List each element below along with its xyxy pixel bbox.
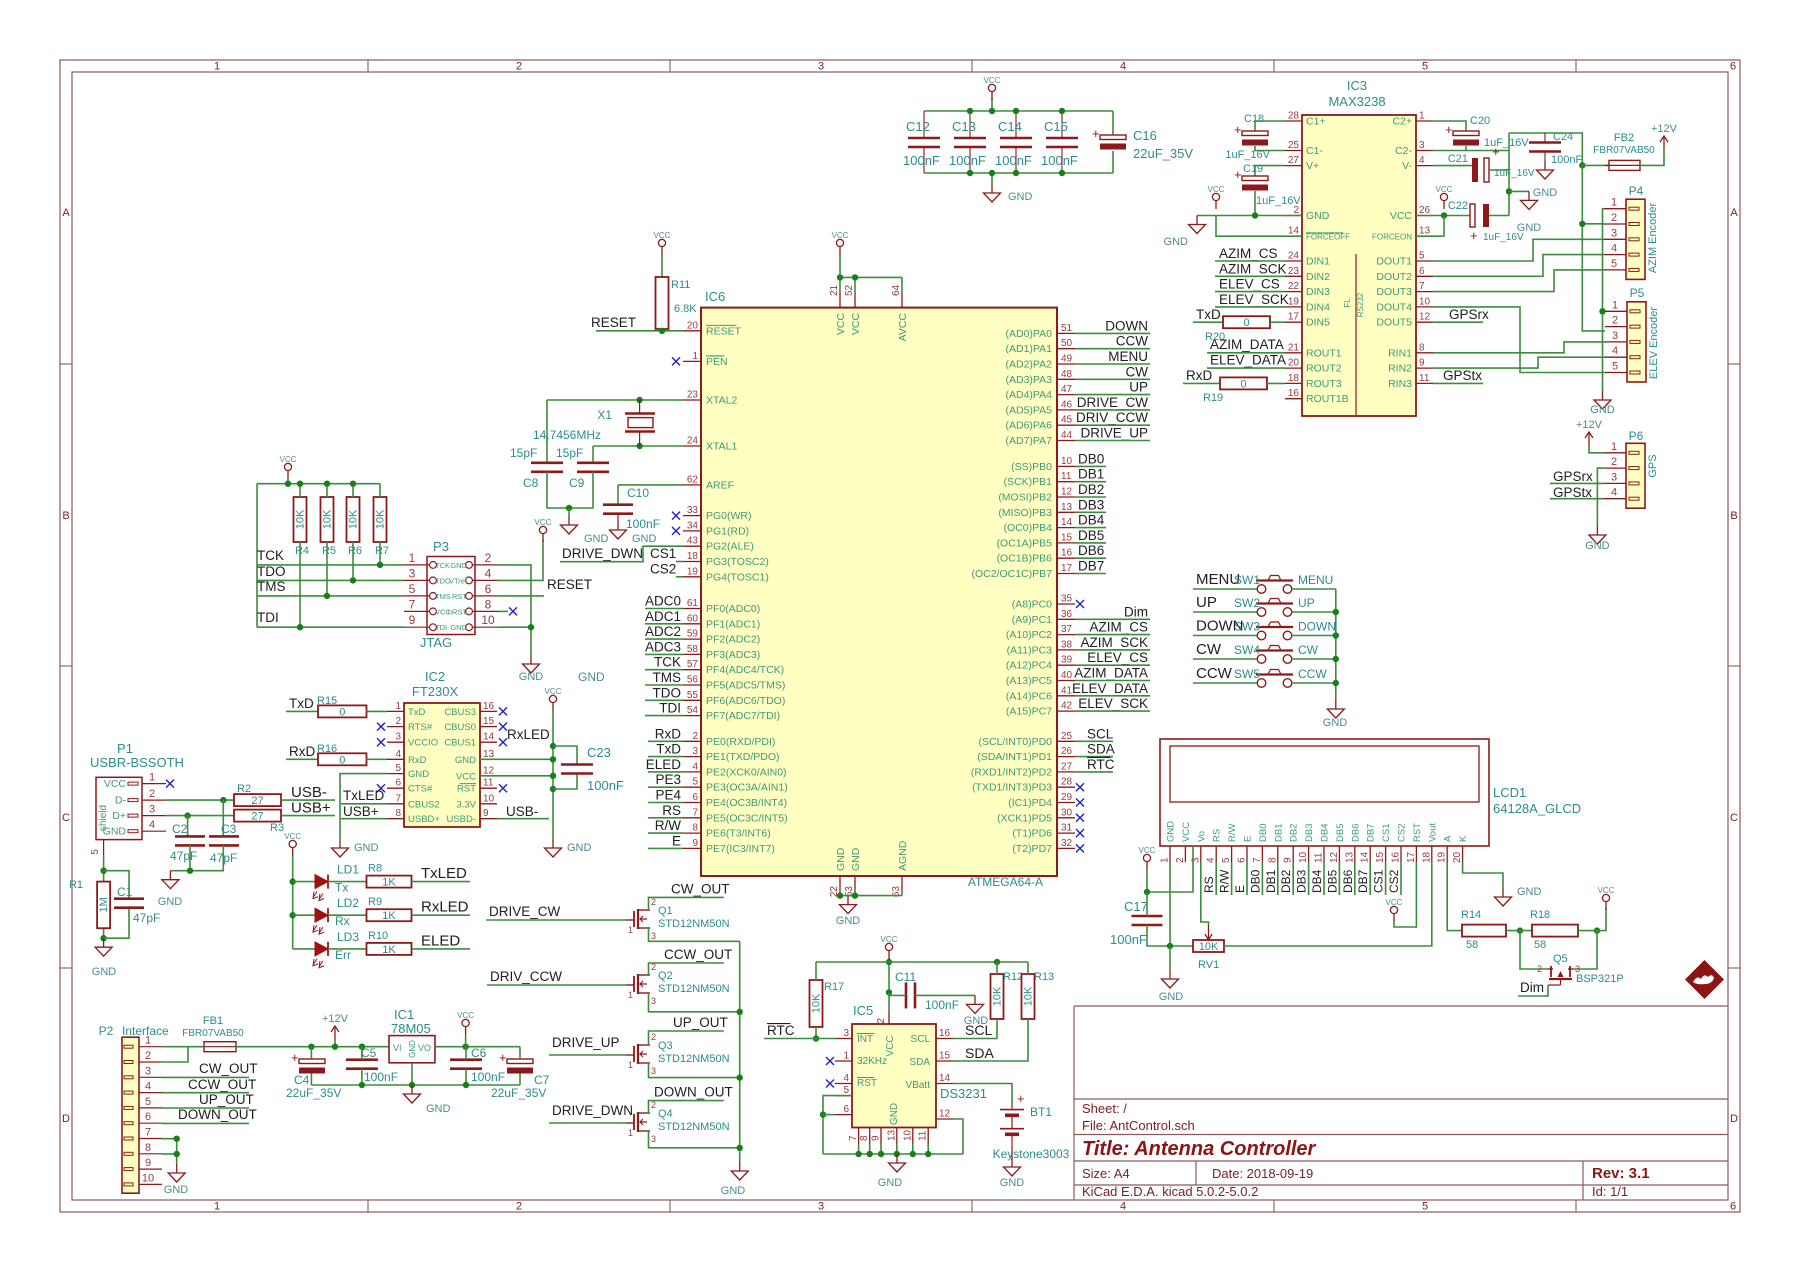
- svg-text:ROUT2: ROUT2: [1306, 363, 1342, 375]
- svg-text:TDI: TDI: [435, 623, 447, 632]
- wire c5 top: [361, 1047, 363, 1060]
- ferrite bead FB1: [182, 1015, 244, 1052]
- svg-text:DRIVE_UP: DRIVE_UP: [1080, 426, 1148, 441]
- node TMS l: [645, 670, 683, 685]
- junction tck j: [377, 562, 383, 568]
- svg-text:3: 3: [1575, 964, 1580, 974]
- svg-text:LD3: LD3: [337, 930, 359, 944]
- svg-text:GND: GND: [1166, 821, 1177, 842]
- svg-text:39: 39: [1061, 655, 1073, 666]
- svg-text:PE1(TXD/PDO): PE1(TXD/PDO): [706, 751, 780, 763]
- svg-text:DRIV_CCW: DRIV_CCW: [490, 969, 562, 984]
- wire sw out SW3: [1292, 635, 1336, 637]
- svg-text:STD12NM50N: STD12NM50N: [658, 983, 730, 995]
- svg-text:GND: GND: [836, 915, 861, 927]
- wire C19- to gnd rail: [1254, 191, 1256, 216]
- power VCC leds: [284, 832, 301, 856]
- connector P4: [1604, 184, 1659, 279]
- svg-text:STD12NM50N: STD12NM50N: [658, 1053, 730, 1065]
- svg-text:DB0: DB0: [1248, 869, 1262, 893]
- svg-text:78M05: 78M05: [391, 1021, 431, 1036]
- svg-text:17: 17: [1288, 312, 1300, 323]
- svg-text:6.8K: 6.8K: [674, 303, 697, 315]
- junction cap top: [1013, 108, 1019, 114]
- svg-text:KiCad E.D.A. kicad 5.0.2-5.0.: KiCad E.D.A. kicad 5.0.2-5.0.2: [1082, 1184, 1258, 1199]
- wire c2 drop: [187, 816, 189, 837]
- svg-text:40: 40: [1061, 670, 1073, 681]
- svg-text:GND: GND: [1585, 540, 1610, 552]
- wire C22 right to node: [1489, 215, 1509, 217]
- node TDI: [257, 610, 279, 625]
- svg-text:100nF: 100nF: [364, 1070, 398, 1084]
- svg-text:C22: C22: [1448, 200, 1468, 212]
- svg-text:SCL: SCL: [911, 1034, 931, 1045]
- svg-text:C11: C11: [895, 970, 916, 984]
- svg-text:R19: R19: [1203, 392, 1223, 404]
- svg-text:ELED: ELED: [421, 932, 460, 949]
- node CCW: [1075, 334, 1150, 349]
- svg-text:RxD: RxD: [408, 755, 427, 766]
- svg-text:6: 6: [1730, 61, 1736, 73]
- wire p2 gnd8: [162, 1153, 177, 1155]
- svg-text:DB2: DB2: [1289, 824, 1300, 842]
- svg-text:DIN4: DIN4: [1306, 301, 1330, 313]
- svg-text:A: A: [62, 207, 70, 219]
- svg-text:6: 6: [395, 778, 401, 789]
- svg-text:3: 3: [149, 804, 155, 816]
- wire pin12 down: [953, 1119, 963, 1154]
- svg-text:9: 9: [1419, 358, 1425, 369]
- svg-text:10: 10: [481, 613, 495, 627]
- ground regulator: [404, 1085, 451, 1115]
- svg-text:VCC: VCC: [1181, 822, 1192, 842]
- svg-text:STD12NM50N: STD12NM50N: [658, 918, 730, 930]
- wire p3 pin10 gnd: [498, 627, 531, 655]
- capacitor C22: [1448, 200, 1524, 243]
- node USB- ic2: [497, 804, 549, 819]
- wire pin drop: [912, 1144, 914, 1154]
- svg-text:AZIM_SCK: AZIM_SCK: [1080, 635, 1148, 650]
- node RTC pd2: [1075, 757, 1115, 772]
- IC6 bottom pins: [829, 840, 909, 897]
- svg-text:MENU: MENU: [1298, 573, 1333, 587]
- svg-text:9: 9: [692, 838, 698, 849]
- svg-text:DB2: DB2: [1078, 482, 1104, 497]
- wire c9 drop: [592, 446, 594, 463]
- svg-text:(OC2/OC1C)PB7: (OC2/OC1C)PB7: [971, 568, 1052, 580]
- svg-text:13: 13: [483, 749, 495, 760]
- svg-text:Q4: Q4: [658, 1108, 673, 1120]
- wire lcd vcc: [1147, 862, 1193, 892]
- svg-text:DB6: DB6: [1350, 824, 1361, 842]
- wire tms row: [257, 595, 404, 597]
- junction c17 top j: [1144, 889, 1150, 895]
- svg-text:GND: GND: [850, 847, 862, 871]
- capacitor C13: [949, 111, 986, 173]
- svg-text:GPSrx: GPSrx: [1553, 469, 1593, 484]
- svg-text:100nF: 100nF: [949, 153, 986, 168]
- svg-text:6: 6: [692, 792, 698, 803]
- svg-text:2: 2: [1611, 456, 1617, 468]
- svg-text:1: 1: [628, 925, 633, 935]
- svg-text:+12V: +12V: [322, 1013, 349, 1025]
- svg-text:42: 42: [1061, 701, 1073, 712]
- svg-text:FORCEOFF: FORCEOFF: [1306, 233, 1350, 242]
- connector P3: [404, 539, 498, 650]
- regulator IC1: [389, 1007, 435, 1063]
- node USB- p1: [281, 784, 335, 801]
- junction p2 j8: [174, 1151, 180, 1157]
- op-amp U IC6 body: [701, 289, 1057, 889]
- wire vbatt: [953, 1084, 1012, 1105]
- svg-text:UP: UP: [1196, 594, 1217, 611]
- wire vcc stem jtag: [287, 477, 289, 484]
- svg-text:DB5: DB5: [1078, 528, 1104, 543]
- svg-text:4: 4: [843, 1073, 849, 1084]
- node ELEV_CS pc: [1075, 650, 1150, 665]
- svg-text:PF4(ADC4/TCK): PF4(ADC4/TCK): [706, 664, 784, 676]
- svg-text:R4: R4: [295, 545, 309, 557]
- svg-text:(A14)PC6: (A14)PC6: [1006, 690, 1052, 702]
- svg-text:VCC: VCC: [1390, 210, 1413, 222]
- wire xtal1 wire: [593, 445, 683, 447]
- node DRIVE_DWN q: [549, 1103, 633, 1123]
- node ELEV_DATA pc: [1072, 681, 1150, 696]
- no-connect ic2 p11: [499, 784, 507, 792]
- junction c23 j4: [550, 773, 556, 779]
- transistor Q1: [626, 897, 730, 941]
- svg-text:P3: P3: [433, 539, 449, 554]
- wire r4 down: [299, 542, 301, 627]
- svg-text:(A15)PC7: (A15)PC7: [1006, 706, 1052, 718]
- svg-text:GND: GND: [1517, 886, 1542, 898]
- IC6 top pins: [829, 284, 909, 341]
- resistor R20: [1205, 316, 1270, 343]
- svg-text:4: 4: [1206, 857, 1217, 863]
- svg-text:DIN3: DIN3: [1306, 286, 1330, 298]
- svg-text:DOUT4: DOUT4: [1376, 301, 1412, 313]
- no-connect p1 vcc: [166, 780, 174, 788]
- svg-text:CS1: CS1: [650, 546, 676, 561]
- node DB5: [1075, 528, 1106, 543]
- junction gnd tap: [1506, 188, 1512, 194]
- svg-text:(T2)PD7: (T2)PD7: [1012, 843, 1052, 855]
- wire sw out SW2: [1292, 611, 1336, 613]
- svg-text:+: +: [499, 1050, 507, 1065]
- capacitor C2: [170, 822, 205, 863]
- wire r6 down: [352, 542, 354, 580]
- no-connect ic2 p2: [377, 723, 385, 731]
- svg-text:+: +: [1470, 228, 1478, 243]
- svg-text:GND: GND: [519, 671, 544, 683]
- junction dm j: [220, 797, 226, 803]
- svg-text:29: 29: [1061, 792, 1073, 803]
- svg-text:PG4(TOSC1): PG4(TOSC1): [706, 571, 769, 583]
- svg-text:GND: GND: [1159, 991, 1184, 1003]
- junction c11 j: [886, 989, 892, 995]
- junction cap bottom: [1059, 170, 1065, 176]
- node TDO: [257, 564, 286, 579]
- node SDA: [1075, 742, 1115, 757]
- svg-text:BT1: BT1: [1030, 1105, 1052, 1119]
- wire c23 top: [553, 746, 577, 765]
- wire pullup rail: [816, 961, 1028, 963]
- svg-text:XTAL1: XTAL1: [706, 441, 737, 453]
- wire aref wire: [618, 484, 683, 486]
- wire pin26 node: [1416, 215, 1470, 217]
- svg-text:C1+: C1+: [1306, 116, 1326, 128]
- wire r top: [352, 484, 354, 497]
- svg-text:17: 17: [1061, 563, 1073, 574]
- svg-text:Err: Err: [335, 948, 351, 962]
- svg-text:13: 13: [1344, 851, 1355, 863]
- wire led in LD1: [293, 881, 315, 883]
- svg-text:24: 24: [687, 436, 699, 447]
- transistor Q2: [626, 962, 730, 1006]
- svg-text:R14: R14: [1461, 909, 1481, 921]
- svg-text:52: 52: [844, 284, 855, 296]
- ground cap bank: [984, 184, 1033, 203]
- svg-text:VCC: VCC: [1598, 886, 1615, 895]
- no-connect ic2 p16: [499, 707, 507, 715]
- ground C10: [610, 514, 657, 545]
- svg-text:RxD: RxD: [1186, 368, 1212, 383]
- junction c23 j3: [550, 756, 556, 762]
- svg-text:1: 1: [214, 1201, 220, 1213]
- svg-text:RST: RST: [1412, 823, 1423, 842]
- node TCK: [257, 548, 284, 563]
- switch SW1: [1234, 573, 1293, 593]
- svg-text:R5: R5: [322, 545, 336, 557]
- junction gnd j2: [852, 892, 858, 898]
- ground BT1: [1000, 1158, 1025, 1189]
- svg-text:5: 5: [90, 849, 101, 855]
- svg-text:GPSrx: GPSrx: [1449, 307, 1489, 322]
- resistor R13: [1022, 971, 1055, 1019]
- node DRIV_CCW: [1075, 410, 1150, 425]
- junction cap bottom: [1013, 170, 1019, 176]
- junction FB2 junction: [1579, 162, 1585, 168]
- svg-text:12: 12: [1061, 487, 1073, 498]
- node TMS: [257, 579, 286, 594]
- svg-text:R10: R10: [368, 930, 388, 942]
- node DOWN sw r: [1298, 620, 1336, 634]
- svg-text:PF5(ADC5/TMS): PF5(ADC5/TMS): [706, 680, 785, 692]
- svg-text:MAX3238: MAX3238: [1328, 94, 1385, 109]
- svg-text:5: 5: [692, 777, 698, 788]
- svg-text:PG1(RD): PG1(RD): [706, 525, 749, 537]
- junction rail j2: [409, 1082, 415, 1088]
- svg-text:10K: 10K: [811, 993, 823, 1013]
- node E pe: [648, 833, 683, 848]
- IC6 right pins: [971, 323, 1075, 855]
- connector P1: [90, 741, 184, 855]
- svg-text:SW4: SW4: [1234, 643, 1260, 657]
- junction rail j: [285, 481, 291, 487]
- svg-text:R9: R9: [368, 896, 382, 908]
- svg-text:GND: GND: [584, 533, 609, 545]
- svg-text:5: 5: [1422, 61, 1428, 73]
- svg-text:R13: R13: [1034, 971, 1054, 983]
- svg-text:3: 3: [651, 1066, 656, 1076]
- svg-text:RIN2: RIN2: [1388, 363, 1412, 375]
- svg-text:47pF: 47pF: [170, 849, 197, 863]
- connector P6: [1604, 429, 1659, 508]
- svg-text:DB6: DB6: [1078, 543, 1104, 558]
- capacitor C23: [561, 745, 624, 793]
- resistor R11: [656, 277, 698, 329]
- svg-text:VO: VO: [418, 1043, 431, 1053]
- svg-text:Date: 2018-09-19: Date: 2018-09-19: [1212, 1166, 1313, 1181]
- wire p2.2 step: [162, 1047, 188, 1062]
- svg-text:10: 10: [1298, 851, 1309, 863]
- wire pin3 to rv1: [1201, 862, 1209, 925]
- wire rv1 out: [1224, 862, 1432, 946]
- svg-text:PG0(WR): PG0(WR): [706, 510, 752, 522]
- svg-text:DOWN: DOWN: [1105, 318, 1148, 333]
- node RxD pe: [648, 726, 683, 741]
- svg-text:3.3V: 3.3V: [456, 799, 476, 810]
- potentiometer RV1: [1193, 925, 1224, 971]
- wire C21 to node: [1489, 169, 1509, 171]
- svg-text:2: 2: [1611, 212, 1617, 224]
- svg-text:33: 33: [687, 505, 699, 516]
- svg-text:+: +: [291, 1050, 299, 1065]
- power GND C24: [1533, 161, 1558, 199]
- svg-text:1: 1: [692, 351, 698, 362]
- junction sw j: [1333, 680, 1339, 686]
- svg-text:Vo: Vo: [1196, 831, 1207, 842]
- junction cap top: [989, 108, 995, 114]
- svg-text:DRIVE_DWN: DRIVE_DWN: [562, 546, 643, 561]
- wire src Q2: [649, 993, 740, 1012]
- junction q j4: [737, 1145, 743, 1151]
- svg-text:41: 41: [1061, 685, 1073, 696]
- junction c5 j: [359, 1044, 365, 1050]
- svg-text:2: 2: [651, 1032, 656, 1042]
- wire ic5 pin6: [823, 1114, 835, 1116]
- wire sw out SW5: [1292, 682, 1336, 684]
- svg-text:PF7(ADC7/TDI): PF7(ADC7/TDI): [706, 710, 780, 722]
- resistor R19: [1203, 377, 1267, 404]
- wire c8 drop: [546, 400, 548, 463]
- svg-text:22uF_35V: 22uF_35V: [286, 1086, 341, 1100]
- svg-text:DB3: DB3: [1078, 497, 1104, 512]
- svg-text:25: 25: [1061, 731, 1073, 742]
- svg-text:RxD: RxD: [289, 744, 315, 759]
- power VCC ic3 left: [1208, 185, 1225, 209]
- svg-text:CBUS2: CBUS2: [408, 799, 440, 810]
- svg-text:P1: P1: [117, 741, 133, 756]
- svg-text:32KHz: 32KHz: [857, 1056, 887, 1067]
- wire pin13 rail: [480, 758, 553, 760]
- node DB6 lcd: [1341, 862, 1355, 895]
- wire vcc to R11: [661, 253, 663, 277]
- svg-text:GND: GND: [158, 896, 183, 908]
- node TxD pe: [648, 742, 683, 757]
- node RxD ic2: [286, 744, 318, 759]
- svg-text:C1-: C1-: [1306, 145, 1323, 157]
- node USB+ ic2: [341, 804, 387, 819]
- junction gnd j1: [837, 892, 843, 898]
- svg-text:R16: R16: [317, 743, 337, 755]
- svg-text:(A13)PC5: (A13)PC5: [1006, 675, 1052, 687]
- crystal X1: [533, 400, 655, 446]
- svg-text:DB5: DB5: [1335, 824, 1346, 842]
- svg-text:28: 28: [1288, 111, 1300, 122]
- svg-text:55: 55: [687, 690, 699, 701]
- svg-text:CS2: CS2: [1387, 869, 1401, 893]
- wire led in LD2: [293, 914, 315, 916]
- svg-text:PF0(ADC0): PF0(ADC0): [706, 603, 760, 615]
- svg-text:3: 3: [651, 1134, 656, 1144]
- svg-text:14: 14: [1288, 226, 1300, 237]
- node ELED pe: [646, 757, 683, 772]
- svg-text:2: 2: [145, 1050, 151, 1062]
- no-connect ic2 p14: [499, 738, 507, 746]
- svg-text:Size: A4: Size: A4: [1082, 1166, 1130, 1181]
- svg-text:1: 1: [1612, 299, 1618, 311]
- LED LD1: [313, 863, 359, 901]
- svg-text:13: 13: [1061, 502, 1073, 513]
- resistor R7: [374, 497, 390, 557]
- node CW_OUT: [649, 881, 730, 910]
- svg-text:TDI: TDI: [257, 610, 279, 625]
- svg-text:CCW: CCW: [1196, 665, 1233, 682]
- wire R19 to pin18: [1267, 382, 1285, 384]
- node DB7 lcd: [1356, 862, 1370, 895]
- svg-text:(A8)PC0: (A8)PC0: [1012, 599, 1052, 611]
- wire jtag vcc rail: [257, 483, 380, 485]
- wire r7 down: [379, 542, 381, 565]
- svg-text:3: 3: [651, 996, 656, 1006]
- wire c3 drop: [222, 800, 224, 836]
- junction reset junction: [659, 328, 665, 334]
- wire r17 top: [815, 962, 817, 980]
- wire dplus: [166, 815, 234, 817]
- svg-text:ROUT3: ROUT3: [1306, 378, 1342, 390]
- svg-text:4: 4: [395, 749, 401, 760]
- svg-text:22uF_35V: 22uF_35V: [491, 1086, 546, 1100]
- power GND IC6: [836, 896, 861, 927]
- svg-text:1uF_16V: 1uF_16V: [1225, 149, 1270, 161]
- wire c6 top: [465, 1047, 467, 1060]
- svg-text:VCC: VCC: [104, 778, 127, 790]
- svg-text:12: 12: [1329, 851, 1340, 863]
- svg-text:2: 2: [149, 788, 155, 800]
- node Dim pc: [1075, 604, 1150, 619]
- svg-text:C8: C8: [523, 476, 539, 490]
- svg-text:TxLED: TxLED: [343, 788, 385, 803]
- svg-text:47pF: 47pF: [133, 911, 160, 925]
- svg-text:Q3: Q3: [658, 1040, 673, 1052]
- svg-text:PE4: PE4: [655, 788, 681, 803]
- svg-text:+: +: [1092, 126, 1100, 141]
- wire ic5 gnd bus: [823, 1153, 963, 1155]
- node CS1 lcd: [1372, 862, 1386, 895]
- svg-text:1: 1: [395, 701, 401, 712]
- node E lcd: [1233, 862, 1247, 895]
- svg-text:61: 61: [687, 598, 699, 609]
- svg-text:6: 6: [145, 1111, 151, 1123]
- svg-text:20: 20: [1288, 358, 1300, 369]
- IC2 left pins: [387, 701, 440, 825]
- svg-text:4: 4: [149, 819, 155, 831]
- svg-text:JTAG: JTAG: [420, 635, 452, 650]
- svg-text:100nF: 100nF: [995, 153, 1032, 168]
- wire C16 top drop: [1112, 111, 1114, 135]
- svg-text:14: 14: [1360, 851, 1371, 863]
